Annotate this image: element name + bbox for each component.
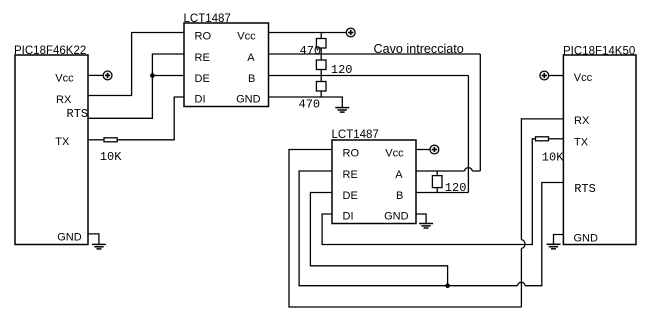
svg-text:B: B (248, 73, 255, 85)
svg-text:DI: DI (343, 211, 354, 223)
wire U4 GND to ground (554, 235, 564, 245)
svg-text:GND: GND (574, 232, 599, 244)
svg-text:PIC18F14K50: PIC18F14K50 (563, 45, 635, 57)
wire TX left segment (88, 139, 104, 141)
svg-text:TX: TX (574, 137, 589, 149)
svg-text:RTS: RTS (67, 107, 89, 121)
chip U1 PIC18F46K22 (15, 55, 88, 245)
resistor R6 120 (432, 176, 442, 188)
resistor R6 120 stubs (436, 171, 438, 193)
svg-text:Vcc: Vcc (237, 30, 256, 42)
wire U2 A long line to node (269, 53, 481, 55)
svg-text:RE: RE (195, 52, 210, 64)
wire U3 RO to U4 RX (long wrap) (289, 150, 521, 308)
ground symbol below U4 (547, 244, 561, 249)
wire U1 Vcc to power (88, 74, 103, 76)
svg-text:DE: DE (343, 190, 358, 202)
wire U3 GND to ground (416, 214, 426, 224)
svg-text:LCT1487: LCT1487 (184, 13, 231, 25)
svg-text:RX: RX (574, 115, 590, 127)
svg-text:10K: 10K (100, 150, 122, 164)
hop of RX wire over TX wire (521, 240, 525, 249)
wire U2 B long line (269, 75, 469, 77)
wire B vertical down (467, 76, 469, 193)
junction dot RE/DE (150, 73, 155, 78)
wire U2 GND to ground (269, 97, 343, 108)
wire U3 DI to U4 TX (wrap) (322, 139, 535, 245)
wire RX vertical up to U4 (520, 248, 522, 307)
svg-text:DI: DI (195, 94, 206, 106)
resistor R2 470 (top) (316, 39, 326, 49)
resistor R5 10K (horizontal) (536, 137, 549, 141)
power symbol near U2 (346, 28, 355, 37)
svg-text:470: 470 (299, 98, 321, 112)
svg-text:120: 120 (331, 63, 353, 77)
wire U3 B to node B (416, 192, 468, 194)
svg-text:LCT1487: LCT1487 (332, 129, 379, 141)
junction dot RE/DE net 2 (445, 283, 450, 288)
wire A vertical down (479, 54, 481, 171)
svg-text:PIC18F46K22: PIC18F46K22 (14, 45, 86, 57)
wire U3 RE to U4 RTS (wrap) (299, 171, 517, 286)
svg-text:A: A (247, 52, 255, 64)
svg-text:GND: GND (236, 94, 261, 106)
svg-text:10K: 10K (542, 151, 564, 165)
svg-text:TX: TX (55, 136, 70, 148)
wire U2 DE to RE net (152, 75, 184, 77)
chip U3 LCT1487 (bottom) (332, 140, 416, 224)
ground symbol below U1 (92, 244, 106, 249)
chip U4 PIC18F14K50 (563, 55, 636, 245)
wire U1 GND pin to ground (88, 234, 99, 245)
svg-text:DE: DE (195, 73, 210, 85)
svg-text:120: 120 (445, 181, 467, 195)
svg-text:B: B (396, 190, 403, 202)
wire U4 Vcc to power (549, 75, 564, 77)
svg-text:RTS: RTS (574, 182, 596, 196)
wire U2 RO to U1 RX (88, 33, 184, 96)
wire U2 DI to U1 TX (117, 97, 184, 140)
hop over RX wire on RTS net (518, 282, 526, 285)
chip U2 LCT1487 (top) (184, 23, 269, 107)
ground symbol below U3 (419, 224, 433, 229)
ground symbol below U2 (335, 108, 349, 113)
power symbol near U3 (430, 145, 439, 154)
power symbol near U1 (103, 71, 112, 80)
svg-text:RO: RO (195, 30, 212, 42)
resistor R1 10K (horizontal) (104, 138, 117, 142)
wire U2 Vcc to power (269, 32, 347, 34)
wire U3 DE joins RE net (310, 193, 447, 286)
wire R5 to U4 TX pin (549, 138, 564, 140)
svg-text:RX: RX (56, 94, 72, 106)
hop over B wire on A net (465, 168, 473, 171)
svg-text:RE: RE (343, 169, 358, 181)
svg-text:RO: RO (343, 147, 360, 159)
wire termination chain vertical stubs (320, 33, 322, 98)
svg-text:470: 470 (300, 44, 322, 58)
resistor R4 470 (bottom) (316, 82, 326, 92)
power symbol near U4 (540, 71, 549, 80)
svg-text:Cavo intrecciato: Cavo intrecciato (374, 42, 464, 56)
svg-text:Vcc: Vcc (55, 72, 74, 84)
svg-text:Vcc: Vcc (385, 147, 404, 159)
svg-text:GND: GND (57, 231, 81, 243)
svg-text:Vcc: Vcc (574, 72, 593, 84)
wire U3 Vcc to power (416, 149, 430, 151)
resistor R3 120 (middle) (316, 60, 326, 70)
svg-text:GND: GND (384, 211, 409, 223)
wire U2 RE to U1 RTS (88, 54, 184, 118)
wire U3 A to node A (416, 170, 465, 172)
svg-text:A: A (395, 169, 403, 181)
